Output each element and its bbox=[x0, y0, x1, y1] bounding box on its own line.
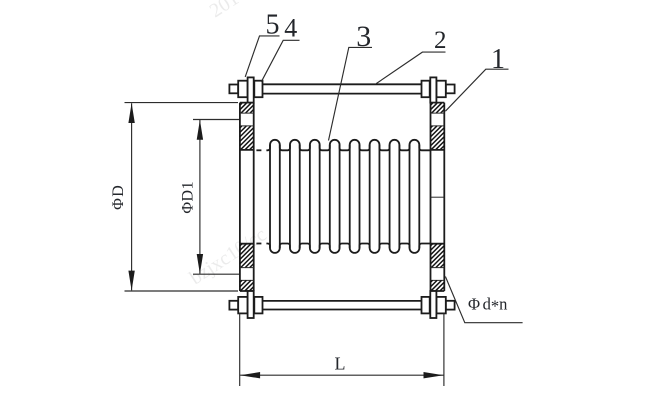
svg-text:Φd*n: Φd*n bbox=[468, 295, 507, 316]
svg-text:5: 5 bbox=[266, 10, 280, 41]
tie-rod lug plate top-left bbox=[248, 77, 254, 102]
bolt hole callout leader bbox=[445, 277, 522, 323]
flange left bellows root junction lines bbox=[240, 150, 254, 244]
svg-text:3: 3 bbox=[356, 20, 371, 53]
flange right plate outline bbox=[431, 103, 445, 291]
callout 3 leader bbox=[329, 47, 373, 140]
bolt head top-right bbox=[446, 85, 455, 94]
wire bellows convolution 6 walls bbox=[370, 145, 380, 248]
callout 2 leader bbox=[376, 52, 445, 84]
nut top-left inner bbox=[254, 81, 262, 98]
nut top-right inner bbox=[422, 81, 430, 98]
bolt head bottom-left bbox=[229, 301, 238, 310]
nut bottom-left inner bbox=[254, 297, 262, 314]
nut bottom-right outer bbox=[436, 297, 445, 314]
wire bellows convolution 1 walls bbox=[270, 145, 280, 248]
nut top-left outer bbox=[238, 81, 247, 98]
flange left plate outline bbox=[240, 103, 254, 291]
callout 4 leader bbox=[261, 40, 299, 82]
dimension PhiD line bbox=[131, 103, 133, 290]
wire bellows convolution 7 walls bbox=[390, 145, 400, 248]
callout 5 leader bbox=[245, 36, 279, 77]
tie-rod lug plate bottom-left bbox=[248, 291, 254, 318]
wire bellows convolution 8 walls bbox=[410, 145, 420, 248]
dimension PhiD arrows bbox=[128, 103, 134, 291]
dimension L arrows bbox=[240, 372, 443, 378]
svg-text:ΦD1: ΦD1 bbox=[179, 181, 196, 214]
flange left hatched section below top bolt hole bbox=[240, 126, 254, 150]
tie-rod lug plate bottom-right bbox=[430, 291, 436, 318]
flange left hatched section below bottom bolt hole bbox=[240, 280, 254, 290]
flange left top bolt hole bbox=[240, 113, 254, 126]
callout 1 leader bbox=[445, 69, 508, 111]
nut top-right outer bbox=[436, 81, 445, 98]
dimension L extension lines bbox=[240, 314, 444, 387]
bellows top root dash at left cuff bbox=[256, 149, 261, 151]
svg-text:4: 4 bbox=[284, 14, 297, 43]
wire bellows convolution 5 walls bbox=[350, 145, 360, 248]
nut bottom-right inner bbox=[422, 297, 430, 314]
dimension L line bbox=[240, 374, 443, 376]
svg-text:ΦD: ΦD bbox=[110, 184, 127, 210]
wire bellows convolution 4 walls bbox=[330, 145, 340, 248]
bolt head bottom-right bbox=[446, 301, 455, 310]
svg-text:1: 1 bbox=[491, 44, 505, 75]
flange left bottom bolt hole bbox=[240, 268, 254, 281]
flange left hatched section above top bolt hole bbox=[240, 103, 254, 113]
bolt head top-left bbox=[229, 85, 238, 94]
flange right hatched section above top bolt hole bbox=[431, 103, 445, 113]
dimension PhiD1 line bbox=[199, 120, 201, 274]
flange right bellows root junction lines bbox=[431, 150, 445, 244]
wire bellows convolution 2 walls bbox=[290, 145, 300, 248]
flange left hatched section above bottom bolt hole bbox=[240, 244, 254, 268]
dimension PhiD1 arrows bbox=[197, 120, 203, 274]
nut bottom-left outer bbox=[238, 297, 247, 314]
svg-text:2: 2 bbox=[434, 27, 447, 54]
bellows bottom outline bbox=[266, 244, 430, 253]
dimension PhiD1 extension lines bbox=[193, 120, 239, 275]
tie rod top bbox=[263, 84, 422, 93]
watermark bbox=[186, 0, 271, 289]
flange right hatched section below top bolt hole bbox=[431, 126, 445, 150]
bellows top outline bbox=[266, 140, 430, 151]
flange right hatched section above bottom bolt hole bbox=[431, 244, 445, 268]
flange right hatched section below bottom bolt hole bbox=[431, 280, 445, 290]
dimension PhiD extension lines bbox=[125, 103, 239, 291]
bellows bottom root dash at left cuff bbox=[256, 243, 261, 245]
svg-text:L: L bbox=[335, 354, 346, 374]
flange right mid weld line bbox=[431, 196, 445, 198]
tie-rod lug plate top-right bbox=[430, 77, 436, 102]
tie rod bottom bbox=[263, 301, 422, 310]
flange right bottom bolt hole bbox=[431, 268, 445, 281]
wire bellows convolution 3 walls bbox=[310, 145, 320, 248]
flange right top bolt hole bbox=[431, 113, 445, 126]
